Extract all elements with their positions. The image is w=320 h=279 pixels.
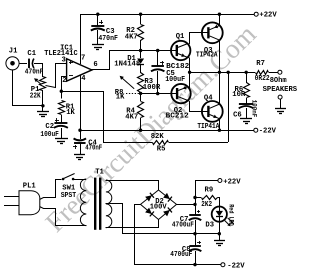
svg-text:SPEAKERS: SPEAKERS xyxy=(263,86,298,94)
svg-text:10R: 10R xyxy=(232,91,246,99)
svg-text:4K7: 4K7 xyxy=(125,113,138,121)
svg-text:1N4148: 1N4148 xyxy=(114,60,140,68)
svg-text:2: 2 xyxy=(62,77,66,85)
svg-text:4700uF: 4700uF xyxy=(172,221,194,229)
svg-text:PL1: PL1 xyxy=(23,183,37,191)
svg-text:T1: T1 xyxy=(95,168,104,176)
svg-text:100uF: 100uF xyxy=(40,131,59,139)
svg-text:4: 4 xyxy=(81,75,86,83)
svg-text:6: 6 xyxy=(93,61,97,69)
svg-text:100R: 100R xyxy=(143,84,161,92)
svg-text:R5: R5 xyxy=(157,145,166,153)
svg-text:100V: 100V xyxy=(150,203,168,211)
svg-text:Red LED: Red LED xyxy=(228,204,235,226)
svg-text:Q4: Q4 xyxy=(204,94,213,102)
svg-text:22K: 22K xyxy=(30,93,41,101)
svg-text:470nF: 470nF xyxy=(85,144,102,152)
svg-text:82K: 82K xyxy=(151,133,165,141)
svg-text:C1: C1 xyxy=(27,50,36,58)
svg-text:4700uF: 4700uF xyxy=(170,251,192,259)
svg-text:TIP42A: TIP42A xyxy=(196,52,218,60)
svg-text:470nF: 470nF xyxy=(25,69,44,77)
svg-text:0R22: 0R22 xyxy=(255,75,270,83)
svg-text:1K: 1K xyxy=(66,109,75,117)
svg-text:C6: C6 xyxy=(233,111,242,119)
svg-text:-22V: -22V xyxy=(227,263,245,271)
svg-text:SPST: SPST xyxy=(61,192,77,200)
svg-text:2K2: 2K2 xyxy=(201,201,212,209)
svg-text:1K: 1K xyxy=(116,94,125,102)
svg-text:100nF: 100nF xyxy=(250,100,258,118)
svg-text:Q1: Q1 xyxy=(176,33,185,41)
svg-text:TIP41A: TIP41A xyxy=(197,123,220,131)
svg-text:R7: R7 xyxy=(256,60,265,68)
svg-text:+22V: +22V xyxy=(259,12,277,20)
svg-text:3: 3 xyxy=(62,56,66,64)
svg-text:-22V: -22V xyxy=(259,127,277,135)
svg-text:7: 7 xyxy=(81,55,85,63)
svg-text:8Ohm: 8Ohm xyxy=(270,77,288,85)
svg-text:D3: D3 xyxy=(205,222,214,230)
svg-text:+22V: +22V xyxy=(223,178,241,186)
svg-text:470nF: 470nF xyxy=(98,35,118,43)
svg-text:BC212: BC212 xyxy=(166,112,189,120)
svg-text:4K7: 4K7 xyxy=(125,33,138,41)
svg-text:100uF: 100uF xyxy=(165,76,185,84)
svg-text:R9: R9 xyxy=(205,186,214,194)
svg-text:J1: J1 xyxy=(9,48,18,56)
